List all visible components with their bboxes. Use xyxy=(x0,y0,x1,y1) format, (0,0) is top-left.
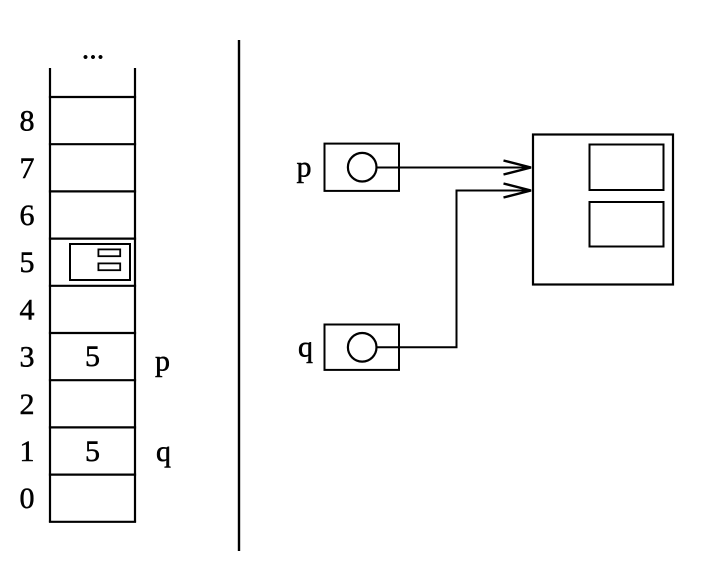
cell line top of cell 8 xyxy=(49,96,136,98)
svg-text:2: 2 xyxy=(20,388,35,421)
cell line top of cell 1 xyxy=(49,426,136,428)
struct field 2 small rect xyxy=(98,263,120,270)
heap struct field 1 rect xyxy=(590,145,664,191)
svg-text:1: 1 xyxy=(20,435,35,468)
cell line bottom of cell 0 xyxy=(49,521,136,523)
svg-text:5: 5 xyxy=(85,435,100,468)
heap struct field 2 rect xyxy=(590,202,664,247)
svg-text:p: p xyxy=(297,151,312,184)
arrowhead of p wire xyxy=(504,161,532,175)
svg-text:5: 5 xyxy=(85,340,100,373)
wire from q circle up to struct box xyxy=(377,191,531,348)
struct object box in cell 5 xyxy=(70,244,130,280)
svg-text:8: 8 xyxy=(20,105,35,138)
cell line top of cell 0 xyxy=(49,474,136,476)
svg-text:6: 6 xyxy=(20,199,35,232)
cell line top of cell 2 xyxy=(49,379,136,381)
cell line top of cell 4 xyxy=(49,285,136,287)
memory stack right vertical wire xyxy=(134,68,136,522)
svg-text:4: 4 xyxy=(20,293,35,326)
pointer variable q box xyxy=(325,325,400,370)
heap struct object big box xyxy=(533,135,673,285)
svg-text:7: 7 xyxy=(20,152,35,185)
svg-text:q: q xyxy=(298,331,313,364)
svg-text:0: 0 xyxy=(20,482,35,515)
svg-text:p: p xyxy=(155,345,170,378)
cell line top of cell 5 xyxy=(49,238,136,240)
memory stack left vertical wire xyxy=(49,68,51,522)
svg-text:3: 3 xyxy=(20,341,35,374)
wire from p circle to struct box xyxy=(377,167,531,169)
cell line top of cell 3 xyxy=(49,332,136,334)
pointer p circle xyxy=(348,153,377,182)
struct field 1 small rect xyxy=(98,249,120,256)
pointer q circle xyxy=(348,333,377,362)
svg-text:5: 5 xyxy=(20,246,35,279)
arrowhead of q wire xyxy=(504,184,532,198)
cell line top of cell 6 xyxy=(49,190,136,192)
vertical divider line xyxy=(238,40,240,551)
svg-text:q: q xyxy=(156,435,171,468)
svg-text:...: ... xyxy=(82,33,105,66)
pointer variable p box xyxy=(325,144,400,191)
cell line top of cell 7 xyxy=(49,143,136,145)
